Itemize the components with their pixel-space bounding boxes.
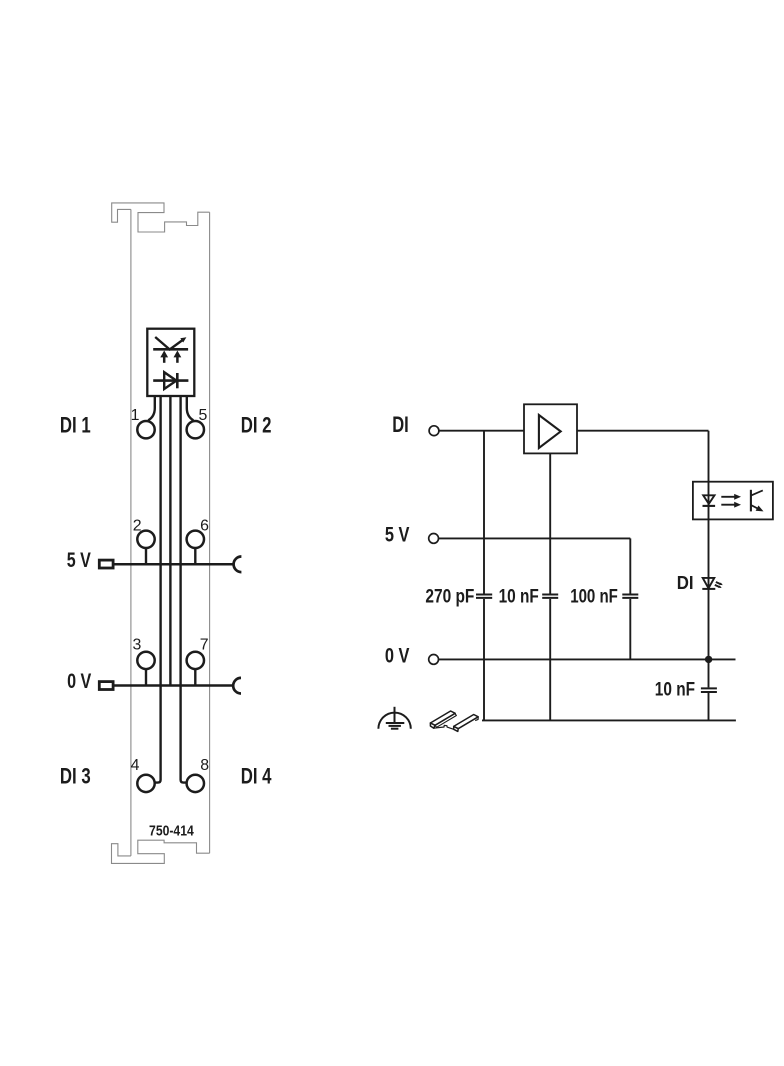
svg-text:5 V: 5 V xyxy=(67,549,91,572)
terminal circle 7 xyxy=(187,652,204,669)
terminal circle 8 xyxy=(187,775,204,792)
svg-text:5: 5 xyxy=(199,407,208,424)
status LED emission arrow 1 xyxy=(716,582,723,585)
module outline bottom profile xyxy=(112,840,210,863)
capacitor C2 10nF column xyxy=(549,453,551,720)
wire bundle line to pin 4 xyxy=(155,396,161,783)
ground symbol bars xyxy=(386,723,405,729)
stem pin 3 xyxy=(145,669,147,685)
0V plug rect xyxy=(99,682,113,690)
svg-text:100 nF: 100 nF xyxy=(570,587,618,608)
stem pin 6 xyxy=(194,548,196,564)
svg-text:6: 6 xyxy=(200,517,209,534)
capacitor C4 plates xyxy=(701,688,717,692)
capacitor C2 plates xyxy=(542,595,558,598)
phototransistor Q1 base bar xyxy=(750,490,752,512)
terminal DI xyxy=(429,426,439,436)
terminal circle 4 xyxy=(137,775,154,792)
LED box U1 xyxy=(147,329,194,396)
optocoupler LED cathode bar xyxy=(703,505,716,507)
LED box diode D1 line xyxy=(153,379,188,382)
svg-text:0 V: 0 V xyxy=(67,670,91,693)
optocoupler LED triangle xyxy=(703,495,714,504)
0V hook contact xyxy=(233,678,241,694)
capacitor C3 plates xyxy=(622,595,638,598)
wire DI to amp xyxy=(439,430,524,432)
wire bottom ground rail xyxy=(482,719,736,721)
phototransistor emitter xyxy=(751,505,764,511)
svg-text:10 nF: 10 nF xyxy=(499,587,539,608)
status LED triangle xyxy=(703,578,715,588)
svg-text:DI: DI xyxy=(677,572,694,593)
LED box top symbol bar xyxy=(153,348,188,351)
wire pin 1 from LED box xyxy=(148,396,155,420)
5V plug rect xyxy=(99,560,113,568)
svg-text:DI 2: DI 2 xyxy=(241,412,272,437)
svg-text:DI 3: DI 3 xyxy=(60,763,91,788)
status LED cathode bar xyxy=(702,588,715,590)
junction node xyxy=(705,656,712,663)
LED box up arrow B xyxy=(174,351,182,363)
svg-text:7: 7 xyxy=(200,636,209,653)
wire main vertical through optocoupler xyxy=(708,431,710,660)
LED box diode D1 triangle xyxy=(164,372,176,389)
module outline top profile xyxy=(112,203,210,232)
capacitor C1 270pF column xyxy=(483,431,485,721)
amp box U2 xyxy=(524,404,577,453)
5V hook contact xyxy=(234,557,242,573)
phototransistor collector xyxy=(751,490,763,495)
wire 0V xyxy=(439,658,736,660)
terminal circle 1 xyxy=(137,421,154,438)
terminal circle 3 xyxy=(137,652,154,669)
wire 5V xyxy=(439,537,631,539)
module right border xyxy=(209,212,211,853)
svg-text:2: 2 xyxy=(133,517,142,534)
wire bundle line to pin 8 xyxy=(181,396,187,783)
terminal 0V xyxy=(429,655,439,665)
0V bus wire left xyxy=(113,684,232,687)
optocoupler light arrow 1 xyxy=(721,494,741,500)
LED box top symbol reflected arrow xyxy=(155,337,183,350)
wire pin 5 from LED box xyxy=(187,396,194,420)
wire bundle middle line to 0V bus xyxy=(169,396,171,686)
svg-text:10 nF: 10 nF xyxy=(655,679,695,700)
svg-text:4: 4 xyxy=(131,757,140,774)
capacitor C1 plates xyxy=(476,595,492,598)
ground symbol stem xyxy=(394,707,396,723)
terminal circle 5 xyxy=(187,421,204,438)
svg-text:0 V: 0 V xyxy=(385,643,410,667)
status LED emission arrow 2 xyxy=(715,585,722,588)
optocoupler light arrow 2 xyxy=(721,502,741,508)
svg-text:270 pF: 270 pF xyxy=(425,587,474,608)
amp triangle xyxy=(539,415,561,448)
wire amp output xyxy=(577,430,709,432)
terminal 5V xyxy=(429,534,439,544)
svg-text:5 V: 5 V xyxy=(385,522,410,546)
5V bus wire left xyxy=(113,563,233,566)
svg-text:DI 4: DI 4 xyxy=(241,763,272,788)
stem pin 7 xyxy=(194,669,196,685)
LED box up arrow A xyxy=(160,351,168,363)
LED box diode D1 cathode bar xyxy=(176,373,179,388)
capacitor C3 100nF column xyxy=(629,538,631,659)
svg-text:DI: DI xyxy=(392,412,409,437)
svg-text:8: 8 xyxy=(200,757,209,774)
module left border xyxy=(130,209,132,856)
LED box top symbol arrowhead xyxy=(180,337,186,342)
stem pin 2 xyxy=(145,548,147,564)
ground symbol arc xyxy=(378,713,410,729)
svg-text:1: 1 xyxy=(131,407,140,424)
terminal circle 2 xyxy=(137,531,154,548)
svg-text:750-414: 750-414 xyxy=(149,823,194,839)
optocoupler box U3 xyxy=(693,482,773,520)
DIN rail icon xyxy=(430,711,478,731)
svg-text:DI 1: DI 1 xyxy=(60,412,91,437)
svg-text:3: 3 xyxy=(133,636,142,653)
terminal circle 6 xyxy=(187,531,204,548)
capacitor C4 10nF wire xyxy=(708,659,710,720)
